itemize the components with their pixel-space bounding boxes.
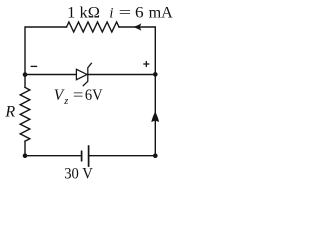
svg-text:30 V: 30 V xyxy=(64,166,93,183)
node D (bottom right junction) xyxy=(153,153,158,158)
wire: left resistor top lead xyxy=(24,75,26,88)
svg-text:V: V xyxy=(54,87,65,104)
wire: middle rail cathode lead xyxy=(88,74,156,76)
resistor R1 1 kOhm (top zigzag) xyxy=(67,22,120,32)
battery V1 30 V (two plates) xyxy=(82,146,89,166)
resistor R (left zigzag) xyxy=(20,87,30,141)
node A (left middle junction) xyxy=(23,72,28,77)
node C (bottom left junction) xyxy=(23,153,28,158)
svg-text:=: = xyxy=(119,4,132,21)
wire: bottom rail left segment xyxy=(25,155,82,157)
wire: left resistor bottom lead xyxy=(24,141,26,156)
svg-text:i: i xyxy=(109,5,113,21)
svg-text:R: R xyxy=(4,104,15,121)
svg-text:mA: mA xyxy=(149,4,174,21)
wire: top rail left segment xyxy=(25,27,67,75)
label "Vz = 6V" (zener voltage) xyxy=(54,87,104,107)
label "i = 6 mA" xyxy=(109,4,173,21)
zener diode D1 (triangle + bent bar) xyxy=(76,63,91,85)
svg-text:6: 6 xyxy=(135,4,144,21)
current arrow (points up, on right rail) xyxy=(151,112,159,123)
label "+" polarity sign (right of zener) xyxy=(143,61,149,67)
wire: bottom rail right segment xyxy=(89,155,156,157)
wire: top rail right segment xyxy=(119,27,155,74)
node B (right middle junction) xyxy=(153,72,158,77)
wire: middle rail anode lead xyxy=(25,74,76,76)
svg-text:1 kΩ: 1 kΩ xyxy=(67,4,100,21)
svg-text:z: z xyxy=(63,96,68,107)
wire: right rail lower (battery to node B) xyxy=(154,74,156,155)
svg-text:=: = xyxy=(73,87,84,104)
svg-text:6V: 6V xyxy=(85,87,104,104)
current arrow i (points left, on top rail) xyxy=(133,23,142,31)
label "-" polarity sign (left of zener) xyxy=(31,65,38,67)
